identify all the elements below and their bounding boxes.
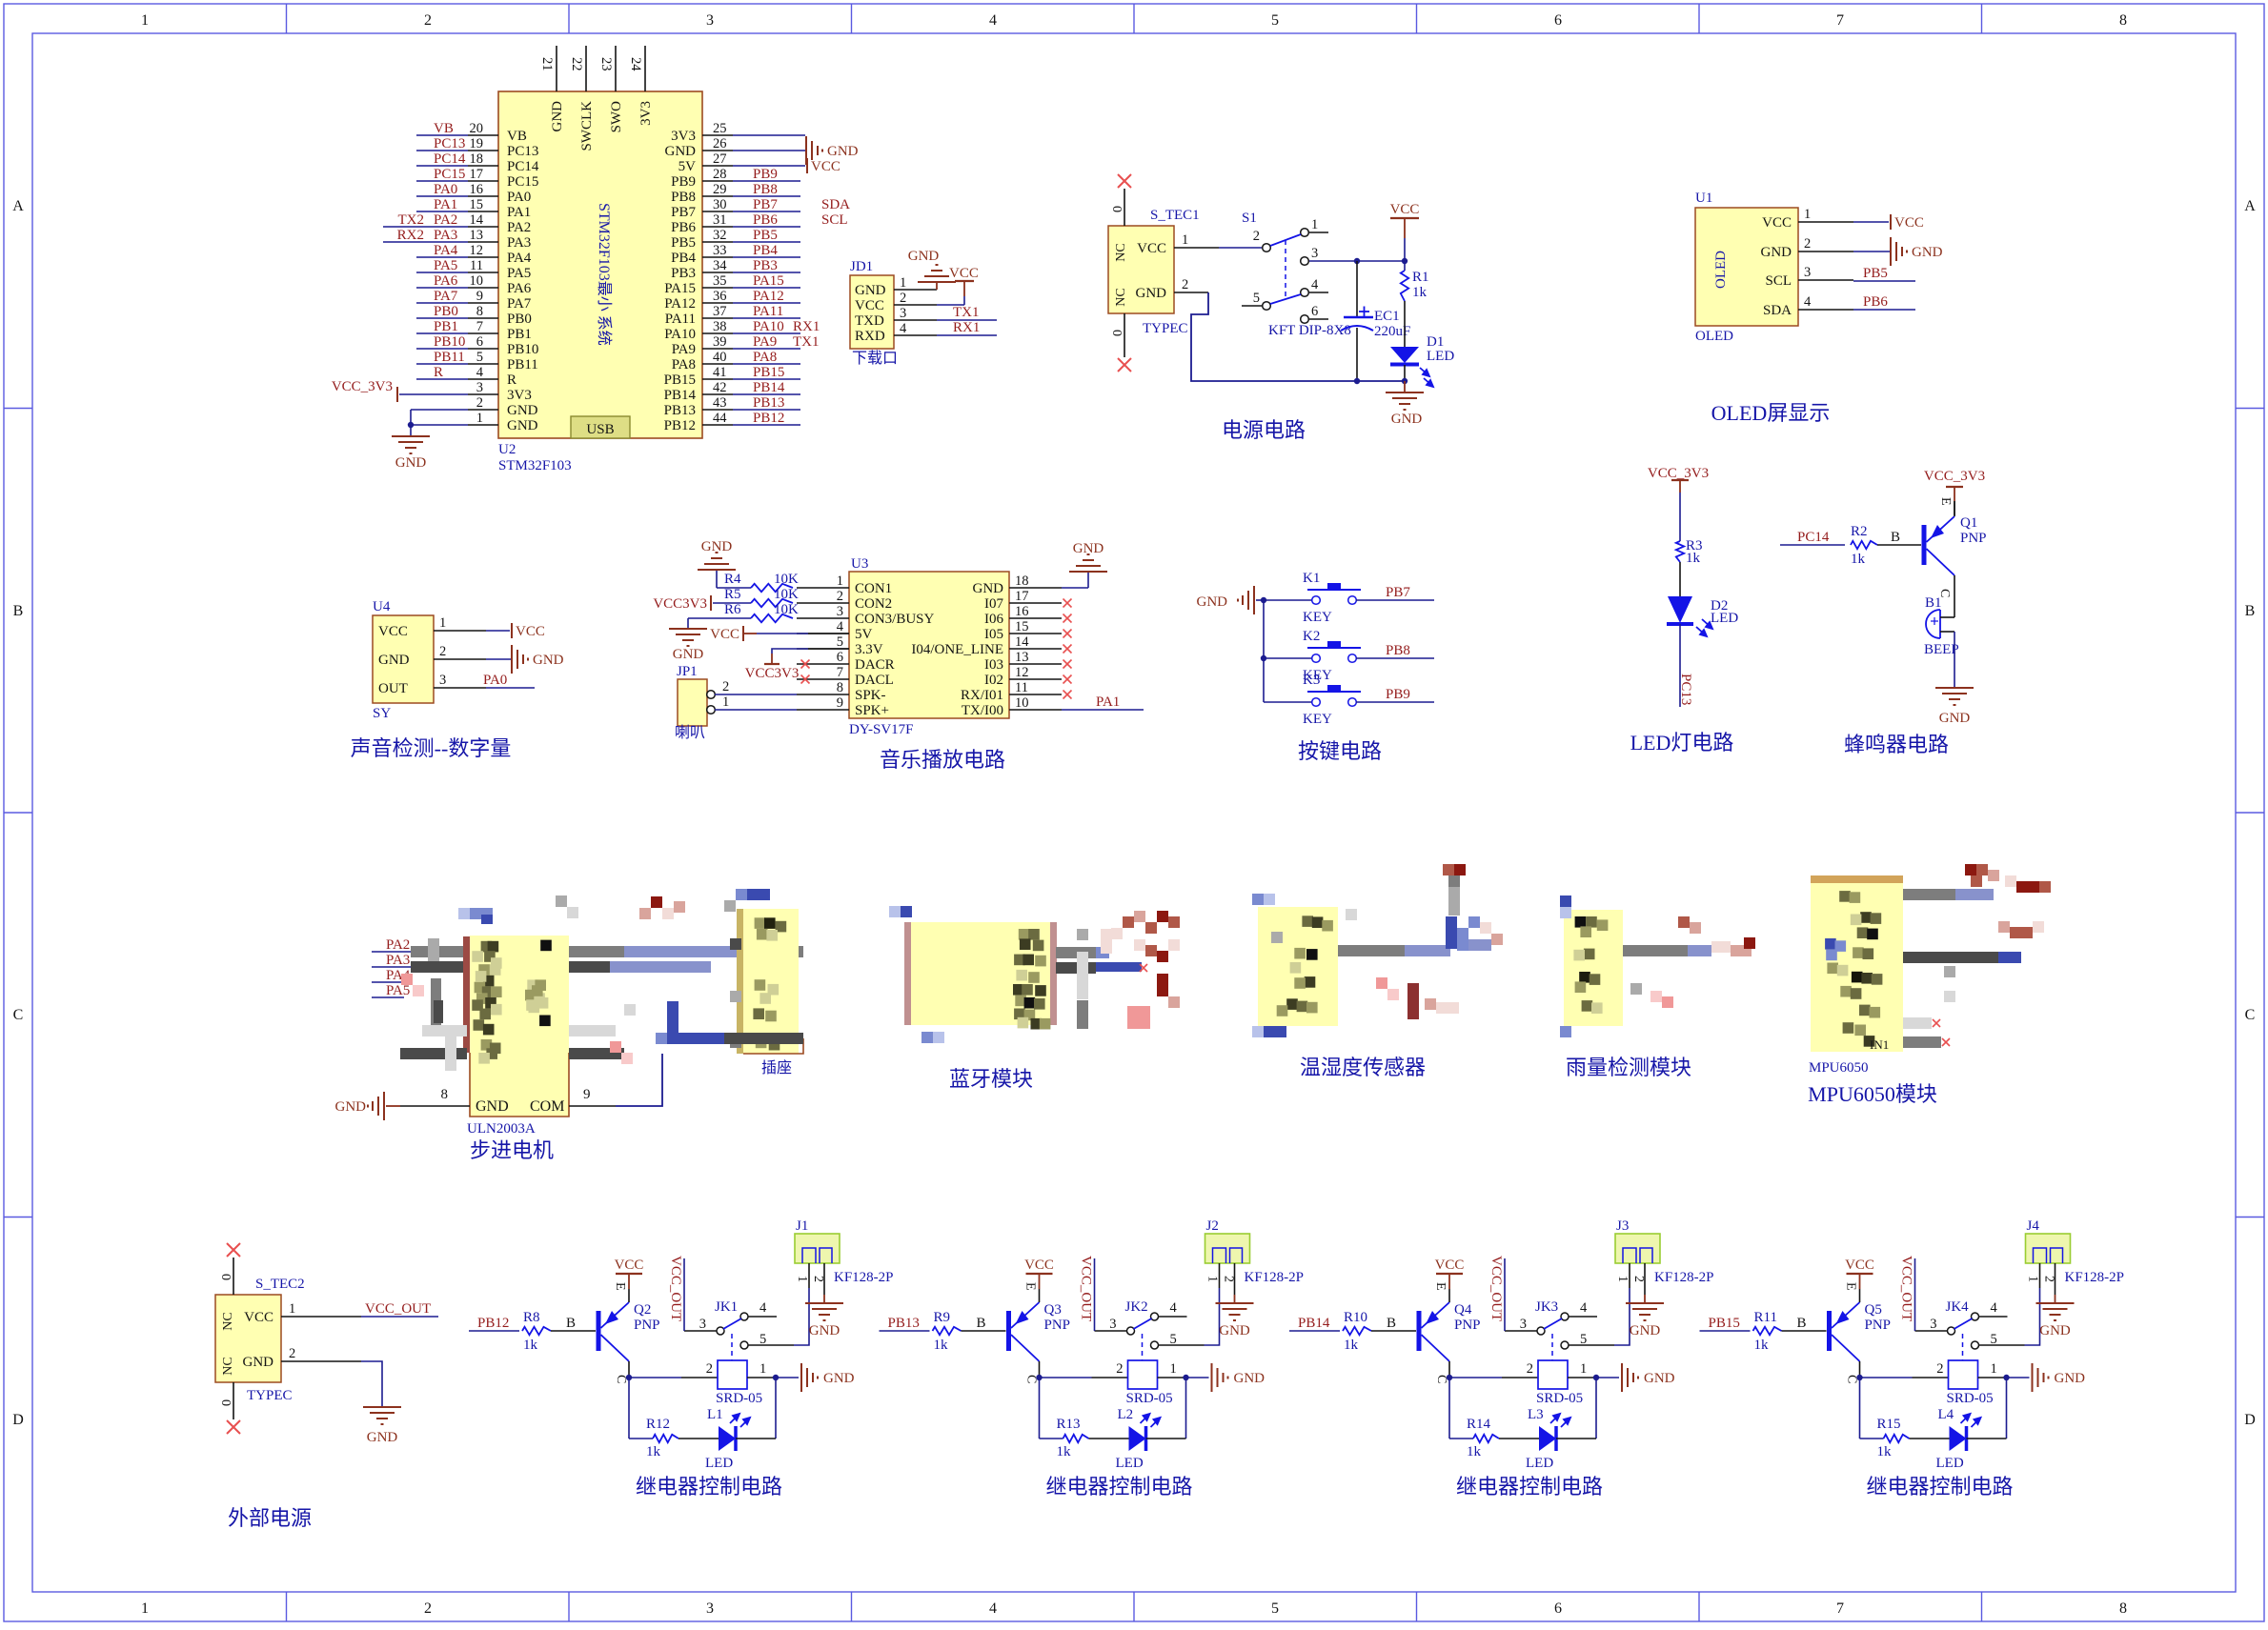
svg-text:10: 10 <box>1015 695 1029 711</box>
svg-text:VCC3V3: VCC3V3 <box>745 666 800 681</box>
svg-text:35: 35 <box>713 273 727 289</box>
svg-text:GND: GND <box>809 1323 840 1338</box>
svg-text:GND: GND <box>855 283 886 298</box>
svg-text:0: 0 <box>218 1274 233 1280</box>
svg-text:LED灯电路: LED灯电路 <box>1630 731 1734 755</box>
U1 pin 4 SDA <box>1798 309 1853 311</box>
svg-text:R12: R12 <box>646 1417 670 1432</box>
svg-text:37: 37 <box>713 304 727 319</box>
svg-text:KEY: KEY <box>1303 610 1332 625</box>
svg-text:GND: GND <box>827 144 859 159</box>
wire net PA9 right <box>733 348 800 350</box>
LED L4 <box>1950 1414 1981 1451</box>
wire net PA5 left <box>416 272 468 273</box>
U2 top pin 21 GND <box>556 46 557 91</box>
svg-text:I06: I06 <box>984 612 1003 627</box>
svg-text:B: B <box>1387 1316 1396 1331</box>
svg-text:GND: GND <box>665 144 697 159</box>
svg-text:5: 5 <box>837 634 843 650</box>
wire net PB1 left <box>416 332 468 334</box>
U3 pin 1 CON1 <box>797 587 849 589</box>
resistor R14 1k <box>1449 1438 1473 1439</box>
wire to ground <box>1954 632 1955 688</box>
svg-text:U4: U4 <box>373 599 391 614</box>
svg-text:PB7: PB7 <box>1386 585 1410 600</box>
socket 插座 pixelated body <box>737 909 743 1054</box>
U2 pin 28 PB9 <box>702 180 733 182</box>
svg-text:SRD-05: SRD-05 <box>1126 1391 1173 1406</box>
wire TX1 <box>937 319 997 321</box>
svg-text:4: 4 <box>989 1600 997 1617</box>
svg-text:R: R <box>507 372 516 388</box>
svg-text:21: 21 <box>539 57 555 71</box>
svg-text:S_TEC2: S_TEC2 <box>255 1277 305 1292</box>
svg-text:2: 2 <box>837 589 843 604</box>
svg-text:GND: GND <box>243 1355 274 1370</box>
svg-text:VCC_OUT: VCC_OUT <box>1899 1256 1914 1321</box>
svg-text:17: 17 <box>470 167 484 182</box>
U2 pin 38 PA10 <box>702 332 733 334</box>
svg-text:PB12: PB12 <box>753 411 784 426</box>
svg-text:PA8: PA8 <box>753 350 777 365</box>
svg-text:PA2: PA2 <box>386 937 410 953</box>
svg-text:PA2: PA2 <box>434 212 457 228</box>
svg-text:15: 15 <box>470 197 484 212</box>
ground symbol power circuit <box>1404 381 1406 392</box>
svg-text:1k: 1k <box>1754 1338 1770 1353</box>
ground symbol above R4 <box>716 570 718 588</box>
U1 pin 2 GND <box>1798 251 1853 252</box>
svg-text:33: 33 <box>713 243 727 258</box>
U2 pin 7 PB1 <box>468 332 498 334</box>
S_TEC2 pin 0 top no-connect <box>233 1258 234 1295</box>
wire net PA8 right <box>733 363 800 365</box>
svg-text:PA15: PA15 <box>753 273 784 289</box>
svg-text:R8: R8 <box>523 1310 540 1325</box>
svg-text:B: B <box>1797 1316 1807 1331</box>
svg-text:5V: 5V <box>678 159 697 174</box>
bluetooth mosaic wires <box>1056 947 1096 958</box>
ground symbol relay right <box>2033 1363 2049 1392</box>
wire net PB4 right <box>733 256 800 258</box>
U2 pin 3 3V3 <box>468 393 498 395</box>
svg-text:R14: R14 <box>1467 1417 1491 1432</box>
transistor Q3 PNP <box>1006 1302 1040 1361</box>
svg-text:15: 15 <box>1015 619 1029 634</box>
U2 pin 44 PB12 <box>702 424 733 426</box>
svg-text:D: D <box>2244 1412 2256 1428</box>
resistor R11 1k <box>1753 1327 1782 1335</box>
power VCC Q3 <box>1026 1273 1053 1275</box>
U2 pin 20 VB <box>468 134 498 136</box>
svg-text:B1: B1 <box>1925 595 1942 611</box>
svg-text:13: 13 <box>470 228 484 243</box>
svg-text:1k: 1k <box>646 1444 661 1459</box>
no-connect X marks U3 right pins <box>1063 599 1072 608</box>
U3 pin 8 SPK- <box>797 694 849 695</box>
wire net PB14 right <box>733 393 800 395</box>
svg-text:1k: 1k <box>523 1338 538 1353</box>
U4 pin 3 OUT <box>434 687 486 689</box>
U1 pin 3 SCL <box>1798 279 1853 281</box>
svg-text:SRD-05: SRD-05 <box>716 1391 762 1406</box>
svg-text:2: 2 <box>1182 277 1188 292</box>
svg-text:PA5: PA5 <box>386 983 410 998</box>
svg-text:STM32F103最小 系统: STM32F103最小 系统 <box>596 203 613 346</box>
svg-text:ULN2003A: ULN2003A <box>467 1121 536 1137</box>
temp module mosaic red top <box>1443 864 1454 875</box>
wire net PB10 left <box>416 348 468 350</box>
svg-text:9: 9 <box>837 695 843 711</box>
svg-text:C: C <box>13 1007 24 1023</box>
svg-text:PC14: PC14 <box>507 159 539 174</box>
U3 pin 16 I06 <box>1009 617 1062 619</box>
connector JP1 body <box>678 679 707 726</box>
svg-text:Q3: Q3 <box>1044 1302 1062 1318</box>
temperature humidity module pixelated body <box>1258 907 1338 1026</box>
power VCC JD1 <box>955 280 974 282</box>
svg-text:JP1: JP1 <box>677 664 698 679</box>
svg-text:VCC_3V3: VCC_3V3 <box>1648 466 1709 481</box>
connector S_TEC2 body <box>215 1295 281 1382</box>
ground symbol J1 <box>823 1295 825 1303</box>
collector wire <box>628 1361 630 1378</box>
svg-text:KEY: KEY <box>1303 712 1332 727</box>
wire net PB8 <box>1356 657 1434 659</box>
svg-text:PA5: PA5 <box>434 258 457 273</box>
svg-text:PB15: PB15 <box>753 365 784 380</box>
wire collector down to LED row <box>628 1378 630 1439</box>
svg-text:GND: GND <box>507 403 538 418</box>
svg-text:电源电路: 电源电路 <box>1222 418 1306 442</box>
svg-text:38: 38 <box>713 319 727 334</box>
U2 pin 19 PC13 <box>468 150 498 151</box>
svg-text:PC13: PC13 <box>434 136 465 151</box>
svg-text:2: 2 <box>424 12 432 29</box>
resistor R8 1k <box>522 1327 551 1335</box>
svg-text:0: 0 <box>1109 206 1124 212</box>
svg-text:GND: GND <box>335 1099 367 1115</box>
svg-text:PB7: PB7 <box>753 197 778 212</box>
svg-text:Q2: Q2 <box>634 1302 651 1318</box>
svg-text:4: 4 <box>476 365 484 380</box>
svg-text:继电器控制电路: 继电器控制电路 <box>1456 1475 1603 1499</box>
svg-text:9: 9 <box>583 1087 591 1102</box>
U2 pin 43 PB13 <box>702 409 733 411</box>
svg-text:43: 43 <box>713 395 727 411</box>
U3 pin 4 5V <box>797 633 849 634</box>
transistor Q5 PNP <box>1827 1302 1860 1361</box>
U3 pin 9 SPK+ <box>797 709 849 711</box>
svg-text:3: 3 <box>439 673 446 688</box>
key trunk wire <box>1263 600 1265 702</box>
resistor R1 1k <box>1401 271 1408 301</box>
svg-text:TX2: TX2 <box>398 212 425 228</box>
svg-text:2: 2 <box>1222 1276 1236 1282</box>
svg-text:TX1: TX1 <box>953 305 980 320</box>
svg-text:VCC: VCC <box>1024 1258 1054 1273</box>
svg-text:4: 4 <box>900 321 907 336</box>
IC ULN2003A pixelated body <box>463 936 470 1053</box>
U3 pin 10 TX/I00 <box>1009 709 1062 711</box>
svg-text:C: C <box>1434 1375 1448 1383</box>
U3 pin 15 I05 <box>1009 633 1062 634</box>
resistor R13 1k <box>1040 1438 1063 1439</box>
svg-text:4: 4 <box>989 12 997 29</box>
svg-text:5: 5 <box>1271 1600 1279 1617</box>
svg-text:1: 1 <box>289 1301 295 1317</box>
relay coil pin 1 wire <box>1158 1377 1186 1378</box>
pushbutton K2 <box>1264 657 1312 659</box>
svg-text:PB9: PB9 <box>671 174 696 190</box>
svg-text:8: 8 <box>2119 12 2127 29</box>
svg-text:I02: I02 <box>984 673 1003 688</box>
svg-text:R: R <box>434 365 443 380</box>
svg-text:VCC: VCC <box>516 624 545 639</box>
U4 pin 1 VCC <box>434 630 486 632</box>
svg-text:1: 1 <box>476 411 483 426</box>
J pin 1 <box>808 1263 810 1288</box>
svg-text:C: C <box>1024 1375 1039 1383</box>
svg-text:4: 4 <box>1991 1300 1998 1316</box>
svg-text:K3: K3 <box>1303 673 1320 688</box>
svg-text:D1: D1 <box>1427 334 1444 350</box>
wire net R left <box>416 378 468 380</box>
svg-text:4: 4 <box>1170 1300 1178 1316</box>
svg-text:16: 16 <box>470 182 484 197</box>
svg-text:Q5: Q5 <box>1865 1302 1882 1318</box>
svg-text:5: 5 <box>1271 12 1279 29</box>
svg-text:10K: 10K <box>774 587 799 602</box>
svg-text:JK2: JK2 <box>1125 1299 1148 1315</box>
svg-text:17: 17 <box>1015 589 1029 604</box>
svg-text:PA12: PA12 <box>664 296 696 312</box>
svg-text:PB8: PB8 <box>671 190 696 205</box>
svg-text:8: 8 <box>2119 1600 2127 1617</box>
svg-text:VCC: VCC <box>710 627 739 642</box>
svg-text:B: B <box>977 1316 986 1331</box>
svg-text:GND: GND <box>1234 1371 1266 1386</box>
U2 pin 6 PB10 <box>468 348 498 350</box>
U2 pin 34 PB3 <box>702 272 733 273</box>
svg-text:蜂鸣器电路: 蜂鸣器电路 <box>1844 733 1949 756</box>
svg-text:1: 1 <box>439 615 446 631</box>
svg-text:PB3: PB3 <box>753 258 778 273</box>
ground symbol below R6 <box>687 618 689 629</box>
svg-text:E: E <box>1938 497 1953 506</box>
svg-text:PC14: PC14 <box>1797 530 1830 545</box>
svg-text:B: B <box>1891 530 1900 545</box>
svg-text:2: 2 <box>1631 1276 1646 1282</box>
resistor R15 1k <box>1860 1438 1884 1439</box>
svg-text:6: 6 <box>1311 304 1318 319</box>
svg-text:1: 1 <box>759 1361 766 1377</box>
svg-text:RX1: RX1 <box>793 319 820 334</box>
svg-text:U3: U3 <box>851 556 868 572</box>
svg-text:3: 3 <box>706 12 714 29</box>
U2 top pin 24 3V3 <box>644 46 646 91</box>
svg-text:29: 29 <box>713 182 727 197</box>
svg-text:PB4: PB4 <box>753 243 778 258</box>
svg-text:3: 3 <box>1311 246 1318 261</box>
svg-text:CON3/BUSY: CON3/BUSY <box>855 612 935 627</box>
svg-text:IN1: IN1 <box>1870 1037 1889 1052</box>
wire collector down to LED row <box>1859 1378 1861 1439</box>
svg-text:GND: GND <box>908 249 940 264</box>
svg-text:GND: GND <box>378 653 410 668</box>
svg-text:VCC: VCC <box>244 1310 273 1325</box>
svg-text:SRD-05: SRD-05 <box>1536 1391 1583 1406</box>
wire U2 pin25 3V3 <box>733 134 805 136</box>
IC U1 OLED body <box>1695 208 1798 326</box>
wire RX1 <box>937 334 997 336</box>
svg-text:2: 2 <box>1253 229 1260 244</box>
U2 pin 15 PA1 <box>468 211 498 212</box>
svg-text:GND: GND <box>2055 1371 2086 1386</box>
svg-text:MPU6050模块: MPU6050模块 <box>1808 1082 1937 1106</box>
svg-text:步进电机: 步进电机 <box>470 1138 554 1162</box>
svg-text:I07: I07 <box>984 596 1003 612</box>
svg-text:R10: R10 <box>1344 1310 1367 1325</box>
svg-text:1: 1 <box>1615 1276 1630 1282</box>
svg-text:42: 42 <box>713 380 727 395</box>
svg-text:PC15: PC15 <box>434 167 465 182</box>
svg-text:VCC: VCC <box>378 624 408 639</box>
wire S1 pin3 to node <box>1309 260 1405 262</box>
svg-text:KF128-2P: KF128-2P <box>2065 1270 2125 1285</box>
connector J2 KF128-2P <box>1205 1234 1250 1263</box>
U2 pin 42 PB14 <box>702 393 733 395</box>
U2 pin 27 5V <box>702 165 733 167</box>
svg-text:I04/ONE_LINE: I04/ONE_LINE <box>911 642 1003 657</box>
U3 pin 2 CON2 <box>797 602 849 604</box>
svg-text:40: 40 <box>713 350 727 365</box>
svg-text:6: 6 <box>1554 1600 1562 1617</box>
svg-text:TYPEC: TYPEC <box>1143 321 1188 336</box>
svg-text:R6: R6 <box>724 602 741 617</box>
svg-text:3.3V: 3.3V <box>855 642 883 657</box>
svg-text:22: 22 <box>569 57 584 71</box>
U2 pin 30 PB7 <box>702 211 733 212</box>
U2 pin 35 PA15 <box>702 287 733 289</box>
svg-text:PA11: PA11 <box>753 304 783 319</box>
collector wire <box>1448 1361 1450 1378</box>
bluetooth module pixelated body <box>904 922 911 1025</box>
power VCC U1 pin1 <box>1853 221 1889 223</box>
svg-text:VCC: VCC <box>1390 202 1420 217</box>
svg-text:LED: LED <box>1936 1456 1964 1471</box>
power VCC Q5 <box>1847 1273 1873 1275</box>
svg-text:蓝牙模块: 蓝牙模块 <box>949 1067 1033 1091</box>
svg-text:GND: GND <box>507 418 538 433</box>
svg-text:3: 3 <box>706 1600 714 1617</box>
mosaic tiles red above <box>651 896 662 908</box>
svg-text:PA4: PA4 <box>434 243 458 258</box>
wire net PB0 left <box>416 317 468 319</box>
svg-text:插座: 插座 <box>761 1059 792 1077</box>
ground symbol S_TEC2 <box>363 1407 401 1424</box>
svg-text:VCC_3V3: VCC_3V3 <box>332 379 393 394</box>
svg-text:OUT: OUT <box>378 681 408 696</box>
svg-text:3: 3 <box>1520 1317 1527 1332</box>
wire net PB13 right <box>733 409 800 411</box>
svg-text:PA15: PA15 <box>664 281 696 296</box>
svg-text:LED: LED <box>1711 611 1738 626</box>
svg-text:E: E <box>613 1282 627 1291</box>
wire net PB11 left <box>416 363 468 365</box>
svg-text:GND: GND <box>1644 1371 1675 1386</box>
svg-text:GND: GND <box>550 101 565 132</box>
svg-text:SPK-: SPK- <box>855 688 886 703</box>
U3 pin 11 RX/I01 <box>1009 694 1062 695</box>
wire net PB5 <box>1853 280 1915 282</box>
svg-text:PNP: PNP <box>1044 1318 1071 1333</box>
U3 pin 18 GND <box>1009 587 1062 589</box>
svg-text:K1: K1 <box>1303 571 1320 586</box>
ground symbol relay right <box>1622 1363 1638 1392</box>
wire net PA7 left <box>416 302 468 304</box>
IC U4 SY body <box>373 615 434 703</box>
svg-text:GND: GND <box>1630 1323 1661 1338</box>
svg-text:U1: U1 <box>1695 191 1712 206</box>
svg-text:LED: LED <box>1526 1456 1553 1471</box>
mosaic wires stepper left <box>411 946 463 957</box>
U3 pin 3 CON3/BUSY <box>797 617 849 619</box>
svg-text:B: B <box>13 603 24 619</box>
svg-text:PB8: PB8 <box>1386 643 1410 658</box>
svg-text:C: C <box>614 1375 628 1383</box>
wire net PB6 <box>1853 309 1915 311</box>
svg-text:外部电源: 外部电源 <box>228 1506 312 1530</box>
svg-text:GND: GND <box>1219 1323 1250 1338</box>
svg-text:PB0: PB0 <box>507 312 532 327</box>
LED L2 <box>1129 1414 1161 1451</box>
svg-text:SCL: SCL <box>821 212 848 228</box>
U2 pin 9 PA7 <box>468 302 498 304</box>
svg-text:2: 2 <box>1804 236 1811 252</box>
svg-text:PB12: PB12 <box>477 1316 509 1331</box>
JP1 pin 1 <box>707 706 716 714</box>
svg-text:41: 41 <box>713 365 727 380</box>
svg-text:3: 3 <box>1109 1317 1116 1332</box>
collector wire <box>1859 1361 1861 1378</box>
svg-text:VCC: VCC <box>1137 241 1166 256</box>
svg-text:1k: 1k <box>1467 1444 1482 1459</box>
svg-text:PA0: PA0 <box>507 190 531 205</box>
svg-text:PNP: PNP <box>1960 531 1987 546</box>
wire net PC13 left <box>416 150 468 151</box>
relay coil JK1 SRD-05 <box>718 1360 747 1389</box>
wire net PB9 right <box>733 180 800 182</box>
U2 pin 25 3V3 <box>702 134 733 136</box>
svg-text:声音检测--数字量: 声音检测--数字量 <box>351 736 512 760</box>
resistor R9 1k <box>933 1327 962 1335</box>
wire net PA10 right <box>733 332 800 334</box>
U2 top pin 23 SWO <box>615 46 617 91</box>
svg-text:10: 10 <box>470 273 484 289</box>
svg-text:2: 2 <box>1116 1361 1123 1377</box>
U2 pin 14 PA2 <box>468 226 498 228</box>
svg-text:1: 1 <box>1991 1361 1997 1377</box>
svg-text:音乐播放电路: 音乐播放电路 <box>880 748 1005 772</box>
svg-text:Q1: Q1 <box>1960 515 1977 531</box>
svg-text:L1: L1 <box>707 1407 723 1422</box>
U3 pin 6 DACR <box>797 663 849 665</box>
svg-text:R2: R2 <box>1851 524 1868 539</box>
svg-text:EC1: EC1 <box>1374 309 1400 324</box>
svg-text:5: 5 <box>476 350 483 365</box>
svg-text:J4: J4 <box>2027 1218 2040 1234</box>
